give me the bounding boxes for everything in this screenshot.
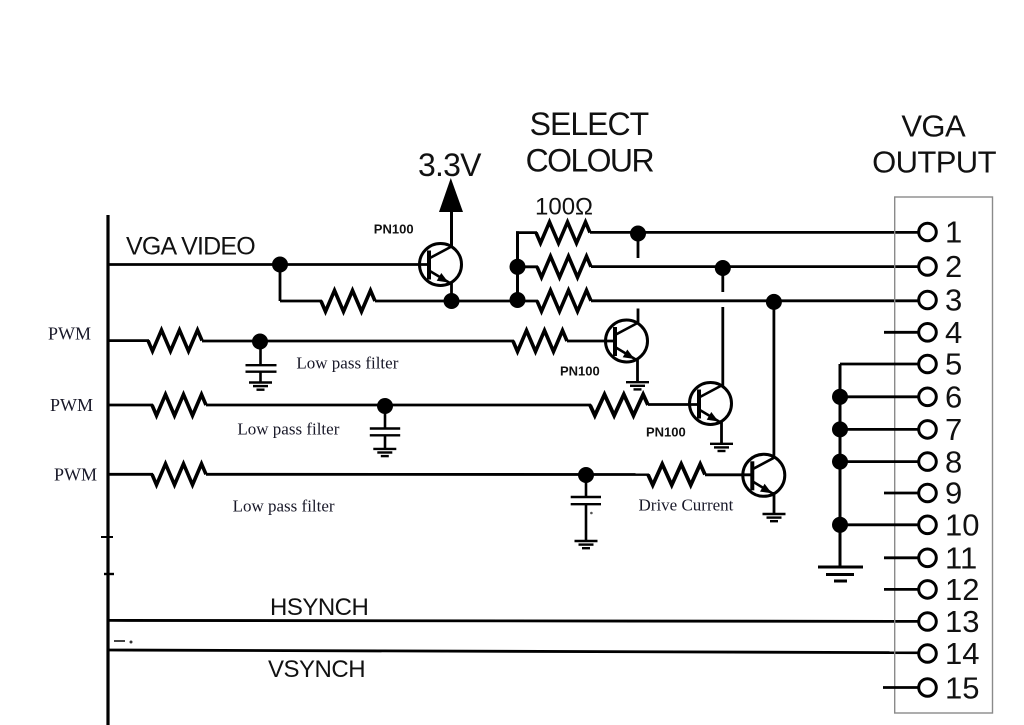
node row1 to Q2 collector <box>630 226 646 242</box>
node row3 to Q4 collector <box>766 294 782 310</box>
wire pwm2 segment c to Q3 base <box>648 403 700 406</box>
pin 7 circle <box>919 421 937 439</box>
svg-text:HSYNCH: HSYNCH <box>270 594 368 621</box>
svg-text:3.3V: 3.3V <box>418 147 482 183</box>
node pwm1 cap <box>252 334 268 350</box>
ground Q4 <box>763 514 786 521</box>
pin 11 circle <box>919 549 937 567</box>
resistor mid row2 <box>590 395 648 416</box>
resistor select row2 <box>537 256 591 277</box>
wire pin6 <box>840 395 918 398</box>
svg-text:VGA: VGA <box>901 109 966 144</box>
svg-text:14: 14 <box>945 636 979 671</box>
power arrow 3.3V <box>439 178 463 212</box>
pin 6 circle <box>919 388 937 406</box>
wire stub down from row1 node <box>637 237 640 258</box>
wire pin8 <box>840 460 918 463</box>
svg-text:6: 6 <box>945 380 962 415</box>
svg-text:11: 11 <box>945 541 977 576</box>
wire pwm3 segment a <box>108 473 153 476</box>
row 3 wire segment a <box>280 300 322 303</box>
capacitor C2 plates <box>370 427 400 429</box>
svg-text:1: 1 <box>945 215 962 250</box>
svg-text:9: 9 <box>945 476 962 511</box>
transistor Q4 <box>743 454 785 496</box>
resistor select row3 <box>537 290 591 311</box>
pin 1 circle <box>919 223 937 241</box>
capacitor C3 lead <box>585 475 588 496</box>
svg-text:OUTPUT: OUTPUT <box>872 145 997 180</box>
resistor pwm3 <box>152 464 206 485</box>
wire pwm1 segment a <box>108 339 149 342</box>
svg-text:PN100: PN100 <box>560 363 600 378</box>
transistor Q1 <box>420 244 462 286</box>
svg-text:3: 3 <box>945 283 962 318</box>
wire pin10 <box>840 523 918 526</box>
svg-text:PWM: PWM <box>50 395 93 415</box>
node gndbus pin10 <box>832 517 848 533</box>
pin 13 circle <box>919 613 937 631</box>
ground C3 <box>575 541 598 548</box>
node pwm3 cap <box>578 467 594 483</box>
row2 wire from bus <box>518 265 539 268</box>
pin 8 circle <box>919 453 937 471</box>
svg-text:SELECT: SELECT <box>530 106 649 142</box>
stray dot mark near C3 <box>590 512 593 515</box>
svg-text:15: 15 <box>945 671 979 706</box>
wire pin7 <box>840 428 918 431</box>
row 3 wire segment b <box>375 300 538 303</box>
pin 14 circle <box>919 645 937 663</box>
node gndbus pin8 <box>832 454 848 470</box>
wire vsync to pin14 <box>108 650 918 653</box>
wire Q3 collector upper <box>721 307 724 387</box>
ground C1 <box>249 383 272 390</box>
svg-text:Low pass filter: Low pass filter <box>237 420 339 439</box>
svg-text:PWM: PWM <box>48 323 91 343</box>
capacitor C1 plates <box>246 364 277 366</box>
resistor R-vga <box>321 291 375 312</box>
transistor Q2 <box>606 320 648 362</box>
wire drop to row3 <box>279 265 282 302</box>
capacitor C1 lead <box>259 342 262 365</box>
wire pwm2 segment a <box>108 404 153 407</box>
resistor pwm2 <box>152 395 206 416</box>
svg-text:PN100: PN100 <box>646 424 686 439</box>
pin 9 circle <box>919 484 937 502</box>
svg-text:Low pass filter: Low pass filter <box>233 496 335 515</box>
ground Q2 <box>626 382 649 389</box>
svg-text:COLOUR: COLOUR <box>526 142 654 178</box>
node pwm2 cap <box>377 398 393 414</box>
wire pwm1 segment c to Q2 base <box>567 340 616 343</box>
wire Q4 emitter <box>773 492 776 513</box>
capacitor C3 plates <box>571 496 601 498</box>
row 3 wire segment c to pin 3 <box>591 299 918 302</box>
pin 4 circle <box>919 324 937 342</box>
wire VGA VIDEO net <box>108 263 429 266</box>
select bus vertical <box>516 231 519 300</box>
capacitor C2 lead <box>384 406 387 428</box>
wire pwm3 segment c to Q4 base <box>705 473 753 476</box>
svg-text:13: 13 <box>945 604 979 639</box>
node bus-row2 <box>510 259 526 275</box>
ground bus vertical <box>839 364 842 566</box>
wire pwm1 segment b <box>202 340 514 343</box>
stub pin4 <box>884 331 918 334</box>
svg-text:12: 12 <box>945 572 979 607</box>
svg-text:5: 5 <box>945 347 962 382</box>
svg-text:8: 8 <box>945 444 962 479</box>
pin 10 circle <box>919 516 937 534</box>
pin 15 circle <box>919 679 937 697</box>
resistor 100ohm row1 <box>536 222 590 243</box>
left input bus wire <box>106 215 109 725</box>
wire stub down from row2 node <box>721 271 724 292</box>
tick on bus <box>104 573 114 575</box>
node junction VGA video <box>272 257 288 273</box>
row2 wire to pin2 <box>591 265 918 268</box>
wire Q2 emitter <box>636 358 639 381</box>
svg-text:7: 7 <box>945 412 962 447</box>
wire hsync to pin13 <box>108 620 918 621</box>
svg-text:4: 4 <box>945 315 962 350</box>
capacitor C3 bottom lead <box>585 504 588 540</box>
wire Q4 collector <box>773 303 776 457</box>
capacitor C1 bottom lead <box>259 372 262 382</box>
ground main <box>818 567 863 581</box>
svg-text:PWM: PWM <box>54 464 97 484</box>
pin 12 circle <box>919 581 937 599</box>
ground Q3 <box>710 444 733 451</box>
resistor mid row1 <box>513 331 567 352</box>
stray dash mark <box>114 640 125 642</box>
node Q1 emitter on row3 <box>444 293 460 309</box>
tick on bus <box>101 536 113 538</box>
svg-text:PN100: PN100 <box>374 221 414 236</box>
svg-text:2: 2 <box>945 249 962 284</box>
stub pin12 <box>884 588 918 591</box>
pin 2 circle <box>919 258 937 276</box>
resistor pwm1 <box>148 330 202 351</box>
svg-text:VGA VIDEO: VGA VIDEO <box>126 233 255 261</box>
wire pin5 to ground bus <box>840 363 918 366</box>
svg-text:100Ω: 100Ω <box>535 194 593 221</box>
row1 wire to pin1 <box>590 231 918 234</box>
node gndbus pin7 <box>832 421 848 437</box>
wire Q1 emitter to row3 <box>450 282 453 301</box>
wire Q2 collector upper <box>637 309 640 325</box>
VGA connector outline <box>895 197 993 713</box>
pin 3 circle <box>919 291 937 309</box>
node bus-row3 <box>510 292 526 308</box>
wire pwm3 segment b <box>206 473 649 476</box>
row1 wire from bus corner <box>516 231 537 234</box>
node gndbus pin6 <box>832 389 848 405</box>
ground C2 <box>373 449 396 456</box>
stub pin11 <box>884 556 918 559</box>
svg-text:VSYNCH: VSYNCH <box>268 656 365 683</box>
svg-text:Low pass filter: Low pass filter <box>296 354 398 373</box>
stub pin15 <box>883 686 918 689</box>
resistor drive current <box>648 464 705 485</box>
stray dot mark <box>130 641 133 644</box>
svg-text:Drive Current: Drive Current <box>639 496 734 515</box>
svg-text:10: 10 <box>945 508 979 543</box>
capacitor C2 bottom lead <box>384 435 387 448</box>
wire pwm2 segment b <box>206 404 591 407</box>
wire Q3 emitter <box>720 421 723 443</box>
transistor Q3 <box>690 383 732 425</box>
pin 5 circle <box>919 355 937 373</box>
stub pin9 <box>884 492 918 495</box>
node row2 to Q3 collector <box>715 260 731 276</box>
